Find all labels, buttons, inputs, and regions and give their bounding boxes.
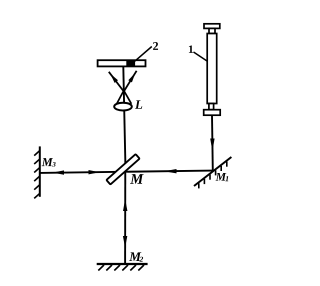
label M1 [216, 173, 229, 181]
wire vertical beam axis (screen to M2) [123, 67, 125, 264]
wire horizontal beam axis (M3 to M1) [40, 171, 213, 173]
label 1 [189, 45, 193, 52]
label 2 leader line [135, 47, 152, 62]
ray up-right with arrowhead [124, 71, 137, 92]
label M2 [129, 252, 143, 261]
ray down-left to lens edge [116, 91, 123, 105]
arrow up (M2 back to M) [123, 199, 127, 211]
screen 2 [98, 60, 146, 67]
mirror M2 [97, 264, 148, 271]
label 1 leader line [194, 52, 208, 61]
arrow down (source toward M1) [210, 139, 214, 152]
arrow right (from M3 back to M) [89, 170, 100, 174]
source 1 lamp [204, 24, 221, 115]
arrow down (M toward M2) [123, 236, 127, 248]
label 2 [153, 42, 158, 50]
label M [130, 174, 144, 184]
mirror M3 [34, 146, 40, 198]
lens L [114, 103, 132, 111]
wire source beam down to M1 [211, 115, 214, 171]
mirror M1 [194, 157, 231, 188]
beamsplitter M [106, 154, 139, 184]
label M3 [42, 158, 56, 167]
label L [135, 100, 142, 108]
arrow left (toward M3) [53, 170, 65, 174]
ray up-left with arrowhead [109, 72, 124, 92]
arrow left (M1 toward M) [164, 169, 177, 173]
ray down-right to lens edge [124, 91, 132, 104]
